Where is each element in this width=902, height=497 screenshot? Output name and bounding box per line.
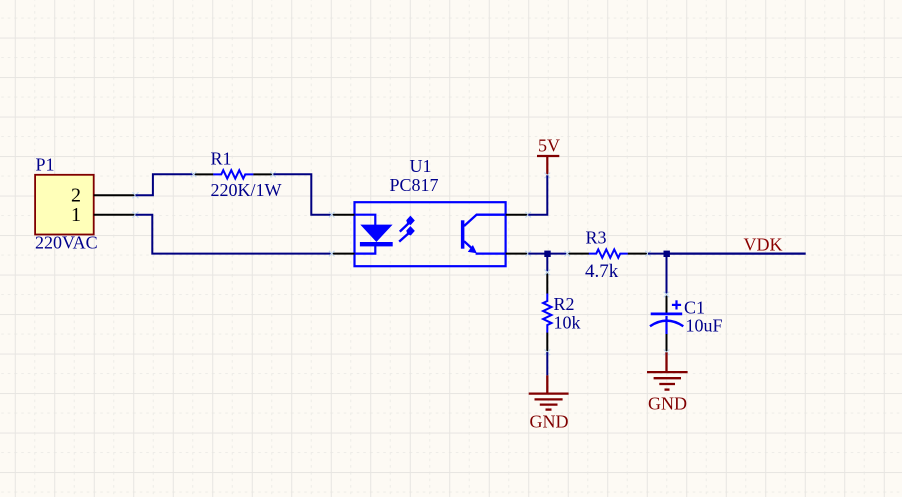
- svg-text:R3: R3: [586, 228, 607, 248]
- resistor R2: [543, 270, 580, 356]
- U1 pin 2 stub: [332, 253, 355, 255]
- svg-text:4.7k: 4.7k: [585, 261, 619, 282]
- opto-coupler U1: [329, 156, 531, 266]
- resistor R3: [565, 228, 651, 282]
- wire R2 to GND: [546, 352, 548, 375]
- svg-text:R1: R1: [211, 149, 232, 169]
- junction at R2: [544, 251, 550, 257]
- LED light arrows: [399, 217, 413, 241]
- svg-text:GND: GND: [530, 412, 569, 432]
- connector P1: [35, 155, 98, 253]
- P1 pin 2: [94, 194, 136, 196]
- U1 pin 4 stub (collector): [506, 214, 529, 216]
- wire junction down to C1: [666, 254, 668, 296]
- resistor R1: [191, 149, 282, 201]
- wire VDK: [667, 253, 806, 255]
- svg-text:PC817: PC817: [390, 175, 439, 195]
- svg-text:10k: 10k: [554, 313, 581, 333]
- wire pin2 to R1: [136, 174, 196, 195]
- svg-text:10uF: 10uF: [686, 315, 723, 335]
- pin hotspot marks U1: [329, 212, 531, 257]
- photo-transistor inside U1: [461, 220, 465, 248]
- svg-text:1: 1: [71, 204, 81, 226]
- junction at C1: [664, 251, 670, 257]
- svg-text:U1: U1: [410, 156, 432, 176]
- wire collector to 5V: [528, 175, 547, 214]
- svg-text:220K/1W: 220K/1W: [211, 180, 282, 200]
- svg-text:C1: C1: [684, 297, 705, 317]
- pin hotspot marks: [133, 192, 139, 217]
- wire pin1 down and across: [136, 215, 332, 254]
- svg-text:220VAC: 220VAC: [35, 233, 98, 253]
- U1 pin 3 stub (emitter): [506, 253, 529, 255]
- svg-text:GND: GND: [648, 394, 687, 414]
- wire R1 to U1 pin: [273, 174, 331, 214]
- LED inside U1: [356, 215, 376, 254]
- U1 pin 1 stub: [332, 214, 355, 216]
- ground GND (C1): [647, 352, 688, 389]
- capacitor C1: [650, 292, 723, 355]
- ground GND (R2): [529, 375, 569, 409]
- svg-text:R2: R2: [554, 294, 575, 314]
- svg-text:VDK: VDK: [744, 234, 783, 254]
- svg-text:P1: P1: [36, 155, 55, 175]
- wire R3 to C1 node: [648, 253, 667, 255]
- wire emitter node across: [528, 253, 567, 255]
- power 5V: [537, 136, 560, 179]
- svg-text:5V: 5V: [538, 136, 560, 156]
- P1 pin 1: [94, 214, 136, 216]
- wire junction down: [546, 254, 548, 272]
